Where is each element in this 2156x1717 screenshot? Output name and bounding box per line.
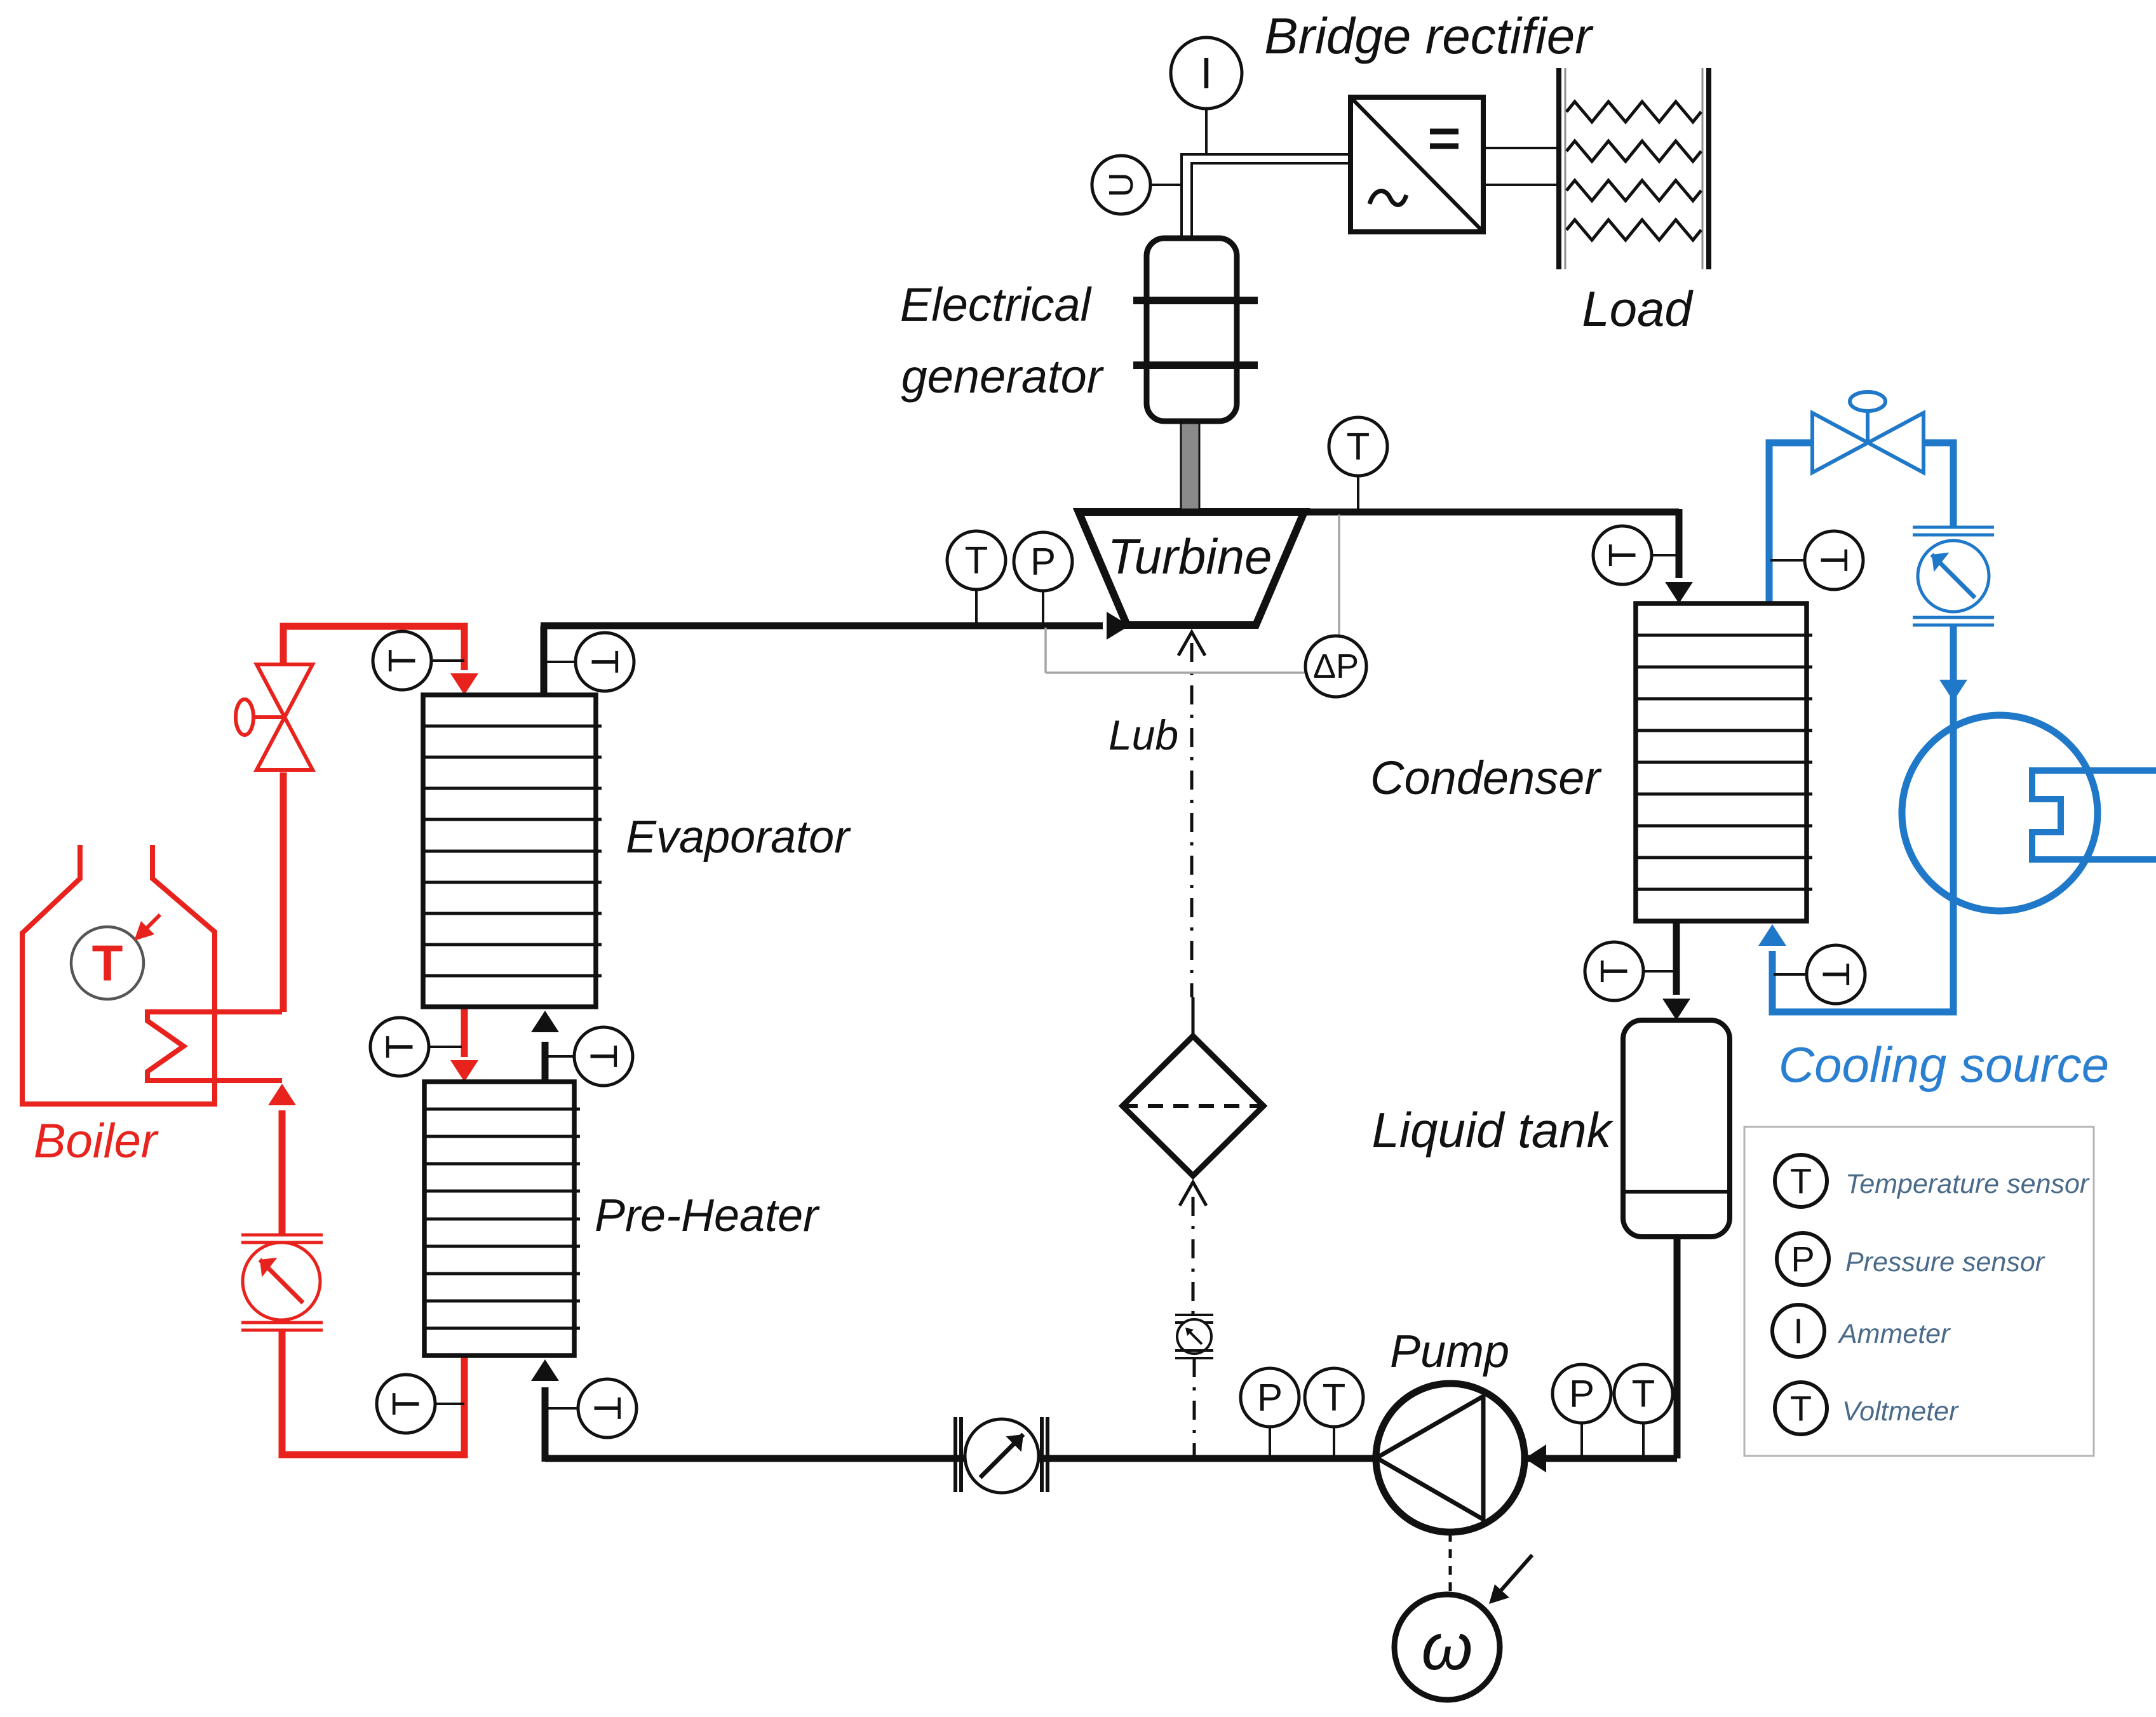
- sensor T sensor condenser outlet: [1585, 942, 1643, 1000]
- stem T evap out: [546, 661, 577, 663]
- svg-text:T: T: [1632, 1373, 1655, 1415]
- lub open arrow at turbine: [1178, 632, 1205, 656]
- red pipe pre-heater return to flowmeter: [282, 1330, 464, 1455]
- wires rectifier to load: [1483, 147, 1561, 149]
- arrow into pre-heater bottom: [531, 1359, 559, 1381]
- svg-text:Condenser: Condenser: [1370, 751, 1602, 804]
- wire pre-heater to evaporator: [542, 1042, 549, 1082]
- boiler heating coil: [147, 1012, 282, 1081]
- wire condenser down: [1676, 509, 1683, 578]
- svg-text:Boiler: Boiler: [34, 1114, 159, 1168]
- condenser heat exchanger: [1636, 603, 1812, 921]
- stem P pump out: [1269, 1427, 1271, 1458]
- stem T evap-preheater red: [427, 1046, 462, 1048]
- sensor T sensor pump outlet: [1305, 1368, 1363, 1427]
- stem T condenser outlet: [1643, 970, 1676, 973]
- wire into pump from right: [1525, 1455, 1677, 1462]
- lub open arrow into filter: [1180, 1182, 1206, 1206]
- liquid tank level line: [1623, 1190, 1730, 1194]
- svg-text:T: T: [1323, 1377, 1346, 1419]
- wire evaporator to turbine inlet: [541, 623, 1103, 630]
- svg-text:Lub: Lub: [1108, 711, 1178, 758]
- electrical generator body: [1147, 238, 1237, 421]
- sensor T sensor cooling water outlet: [1805, 531, 1863, 589]
- cooling source bracket: [2032, 771, 2156, 859]
- svg-text:T: T: [1601, 544, 1644, 567]
- wire up to pre-heater: [542, 1387, 549, 1462]
- svg-text:P: P: [1569, 1373, 1594, 1415]
- blue arrow into condenser bottom: [1758, 924, 1786, 946]
- blue arrow into cooling source: [1939, 680, 1967, 701]
- sensor T sensor condenser inlet: [1593, 526, 1652, 584]
- blue pipe flowmeter through cooling source return: [1772, 625, 1953, 1012]
- lub dash-dot to pump line: [1193, 1358, 1196, 1458]
- omega setpoint arrow line: [1494, 1555, 1532, 1598]
- svg-text:Turbine: Turbine: [1108, 529, 1272, 584]
- svg-text:Pre-Heater: Pre-Heater: [595, 1190, 820, 1241]
- generator output double wire: [1182, 154, 1351, 238]
- stem P pump in: [1580, 1423, 1583, 1458]
- svg-text:P: P: [1257, 1377, 1283, 1419]
- sensor T sensor pre-heater hot outlet: [377, 1375, 435, 1433]
- bridge rectifier diagonal: [1351, 97, 1483, 232]
- legend box: [1744, 1127, 2094, 1456]
- svg-text:I: I: [1793, 1311, 1803, 1351]
- generator band lower: [1133, 361, 1258, 369]
- stem T turbine outlet: [1357, 476, 1359, 512]
- red pipe evaporator to pre-heater: [461, 1007, 468, 1057]
- sensor T sensor evaporator vapour outlet: [576, 633, 634, 691]
- bridge rectifier = bottom bar: [1430, 144, 1459, 149]
- red arrow into pre-heater top: [450, 1060, 478, 1082]
- voltmeter stem: [1150, 184, 1182, 186]
- pump shaft dashed: [1449, 1533, 1452, 1593]
- stem T cooling inlet: [1774, 973, 1808, 976]
- wire condenser to liquid tank: [1673, 921, 1680, 995]
- svg-text:T: T: [379, 1035, 421, 1059]
- boiler vessel outline: [22, 845, 215, 1104]
- red pipe valve to evaporator elbow: [283, 626, 464, 670]
- stem T cooling outlet top: [1770, 559, 1805, 562]
- svg-text:Temperature sensor: Temperature sensor: [1845, 1169, 2090, 1199]
- svg-text:T: T: [1815, 963, 1857, 986]
- pump: [1376, 1384, 1525, 1532]
- arrow into liquid tank: [1662, 999, 1690, 1020]
- svg-text:T: T: [583, 1045, 625, 1068]
- stem T evap in: [429, 659, 464, 662]
- sensor T sensor evaporator hot inlet: [373, 631, 431, 690]
- pump speed sensor omega: [1394, 1594, 1500, 1700]
- blue flow meter: [1913, 526, 1994, 529]
- red arrow into boiler coil: [268, 1084, 296, 1105]
- dP tap from turbine outlet: [1338, 515, 1340, 638]
- bridge rectifier ~ symbol: [1370, 191, 1406, 205]
- svg-text:T: T: [1593, 960, 1636, 983]
- load resistor bank: [1559, 68, 1709, 269]
- svg-text:generator: generator: [901, 350, 1105, 403]
- svg-text:T: T: [381, 649, 424, 673]
- svg-text:T: T: [584, 650, 626, 674]
- svg-text:ω: ω: [1422, 1610, 1473, 1684]
- svg-text:T: T: [92, 935, 123, 992]
- boiler setpoint arrow: [138, 915, 160, 936]
- blue pipe condenser top to valve: [1769, 443, 1812, 605]
- sensor T sensor turbine outlet: [1329, 417, 1387, 476]
- bridge rectifier = top bar: [1430, 129, 1459, 135]
- stem T preheater out: [546, 1055, 575, 1058]
- sensor P sensor pump outlet: [1241, 1368, 1299, 1427]
- svg-text:T: T: [586, 1397, 629, 1420]
- svg-text:Cooling source: Cooling source: [1779, 1037, 2109, 1093]
- wire turbine outlet to condenser: [1302, 509, 1679, 516]
- dP tap from P sensor: [1044, 628, 1047, 673]
- sensor legend pressure sensor symbol: [1777, 1233, 1829, 1285]
- svg-text:P: P: [1791, 1239, 1814, 1279]
- filter body: [1122, 1036, 1263, 1176]
- red flow meter (boiler loop): [241, 1234, 323, 1237]
- sensor T sensor turbine inlet: [947, 531, 1006, 589]
- svg-text:T: T: [1347, 426, 1370, 468]
- red pipe flowmeter to boiler coil: [279, 1110, 286, 1235]
- svg-text:T: T: [1790, 1389, 1812, 1429]
- arrow into condenser top: [1665, 582, 1693, 603]
- stem T preheater working inlet: [546, 1407, 578, 1410]
- wire evaporator-out vertical: [541, 626, 548, 695]
- svg-text:ΔP: ΔP: [1313, 647, 1359, 685]
- blue pipe valve to flowmeter: [1924, 443, 1953, 527]
- generator band upper: [1133, 297, 1258, 304]
- svg-text:Ammeter: Ammeter: [1837, 1319, 1951, 1349]
- generator shaft: [1181, 419, 1199, 509]
- sensor P sensor turbine inlet: [1014, 532, 1072, 591]
- sensor T sensor cooling water inlet: [1807, 945, 1865, 1004]
- main flow meter: [953, 1417, 957, 1492]
- stem T pump in: [1642, 1423, 1645, 1458]
- sensor differential pressure sensor dP: [1305, 636, 1366, 697]
- svg-text:T: T: [1813, 549, 1856, 572]
- cooling source circle: [1902, 715, 2098, 911]
- lub dash-dot to filter: [1190, 643, 1194, 997]
- lub dash-dot below filter: [1192, 1197, 1195, 1314]
- svg-text:Pump: Pump: [1390, 1326, 1509, 1377]
- sensor T sensor pre-heater working outlet: [574, 1027, 633, 1086]
- wire liquid tank to pump line: [1674, 1237, 1681, 1458]
- sensor T sensor pump inlet: [1614, 1364, 1673, 1423]
- sensor ammeter I: [1171, 37, 1242, 109]
- svg-text:Evaporator: Evaporator: [626, 812, 851, 863]
- svg-text:Electrical: Electrical: [900, 278, 1093, 331]
- svg-text:U: U: [1102, 173, 1140, 198]
- lub small flow meter: [1175, 1314, 1213, 1316]
- red pipe valve to boiler coil: [280, 772, 287, 1012]
- sensor voltmeter U: [1092, 156, 1150, 214]
- turbine trapezoid: [1079, 512, 1304, 625]
- arrow into pump: [1525, 1444, 1546, 1472]
- stem T preheater red out: [434, 1403, 464, 1405]
- lub solid stub above filter: [1192, 997, 1195, 1037]
- svg-text:T: T: [965, 539, 988, 582]
- wire pump discharge bottom main: [545, 1455, 1378, 1462]
- sensor T sensor pre-heater working inlet: [578, 1379, 637, 1438]
- red arrow into evaporator top: [450, 673, 478, 695]
- svg-text:Load: Load: [1582, 281, 1694, 337]
- bridge rectifier box: [1351, 97, 1483, 232]
- svg-text:T: T: [1790, 1161, 1812, 1201]
- svg-text:Pressure sensor: Pressure sensor: [1845, 1247, 2045, 1277]
- sensor legend voltmeter symbol: [1775, 1382, 1827, 1434]
- svg-text:Voltmeter: Voltmeter: [1842, 1396, 1959, 1427]
- filter dashed diagonal: [1122, 1104, 1263, 1108]
- ammeter stem: [1205, 109, 1208, 154]
- svg-text:Bridge rectifier: Bridge rectifier: [1264, 8, 1594, 64]
- pre-heater heat exchanger: [424, 1082, 580, 1356]
- arrow into evaporator bottom: [531, 1011, 559, 1032]
- stem T turbine inlet: [975, 589, 978, 626]
- sensor P sensor pump inlet: [1553, 1364, 1611, 1423]
- sensor T sensor evaporator hot outlet: [370, 1018, 429, 1076]
- stem T pump out: [1333, 1427, 1335, 1458]
- svg-text:Liquid tank: Liquid tank: [1371, 1102, 1614, 1158]
- sensor legend ammeter symbol: [1772, 1305, 1824, 1357]
- red valve (boiler loop): [236, 664, 313, 770]
- liquid tank: [1623, 1020, 1730, 1237]
- sensor boiler temperature sensor T: [71, 927, 144, 999]
- sensor legend temperature sensor symbol: [1775, 1155, 1827, 1207]
- svg-text:I: I: [1200, 48, 1212, 98]
- stem T condenser inlet: [1652, 554, 1679, 556]
- svg-text:P: P: [1030, 541, 1056, 583]
- pump triangle: [1377, 1396, 1483, 1519]
- stem P turbine inlet: [1042, 591, 1044, 626]
- evaporator heat exchanger: [423, 695, 602, 1007]
- svg-text:T: T: [385, 1392, 428, 1416]
- arrow into turbine inlet: [1107, 612, 1129, 640]
- blue valve (cooling): [1812, 392, 1924, 473]
